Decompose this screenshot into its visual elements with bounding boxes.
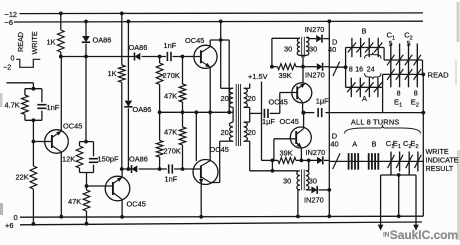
wire read input node [59,55,135,59]
wire T2 left loop [272,38,300,66]
wire READ node down right column [422,74,424,216]
svg-text:30: 30 [284,45,292,54]
svg-text:47K: 47K [164,92,177,101]
transistor OC45 Q3 (driver upper) [183,36,218,160]
svg-text:20: 20 [221,94,229,103]
wire write matrix bottom box [381,173,416,177]
resistor 1K R2 (on -12 drop) [108,12,126,170]
wire clamp column from -6 [327,19,331,218]
inductor T1 primary upper 20 turns [221,88,234,112]
svg-text:IN270: IN270 [304,196,324,205]
svg-text:24: 24 [367,67,375,74]
svg-text:READ: READ [428,70,450,79]
capacitor 1nF C1 (series, read row) [160,41,183,62]
inductor T2 secondary 30 turns [303,37,317,55]
wire T3 left loop [250,160,298,172]
svg-text:1μF: 1μF [262,117,275,126]
svg-text:40: 40 [330,140,338,149]
winding row B 8-16-24 turns [346,27,385,58]
diode IN270 D6 [303,63,329,80]
resistor 47K R5 [164,112,186,169]
resistor 4.7K R7 [5,87,42,121]
svg-text:39K: 39K [280,148,293,157]
wire 12K network bottom [80,173,94,188]
transformer T3 core [302,169,305,190]
label ALL 8 TURNS [345,117,421,133]
inductor T1 secondary upper 20 turns [244,84,256,123]
svg-text:40: 40 [328,45,336,54]
wire -6 drop to T1 primary top [219,20,233,89]
svg-text:22K: 22K [16,173,29,182]
svg-text:OC45: OC45 [269,98,288,107]
wire row to Q4 shield [195,112,197,161]
node OA86-12K junction [84,140,88,144]
core C2 winding column [404,30,417,87]
winding C2E2 write [403,139,421,175]
svg-text:20: 20 [248,94,256,103]
transistor OC45 Q5 [269,67,312,115]
diode OA86 D3 (on -6 drop) [124,20,151,170]
svg-text:5: 5 [389,41,393,48]
svg-text:C2: C2 [404,30,413,41]
transformer T1 core [236,84,240,146]
svg-text:1K: 1K [108,69,117,78]
svg-text:IN270: IN270 [306,148,326,157]
diode OA86 D1 (vertical from -6 rail) [82,20,112,57]
winding B write turns [369,139,379,169]
wire write drive row [329,160,423,162]
svg-text:8: 8 [349,67,353,74]
svg-text:1nF: 1nF [165,175,178,184]
svg-text:OC45: OC45 [63,122,82,131]
capacitor 1nF C2 (parallel with 4.7K) [37,89,59,121]
transistor OC45 Q6 [274,113,311,163]
inductor T3 secondary 30 turns [306,160,317,190]
net +6V bottom rail [5,221,422,230]
wire T1 secondary centre tap [250,112,263,114]
winding C1E1 write [386,139,403,175]
transistor OC45 Q1 (left input) [37,57,83,219]
core D write drive [330,132,340,170]
sense row lower to READ [383,69,426,80]
svg-text:30: 30 [309,177,317,186]
wire row A to output row [382,87,384,112]
capacitor 150pF C3 [89,142,119,173]
transistor OC45 Q4 (driver lower) [193,145,229,219]
diode OA86 D2 (series in read input row) [129,43,148,61]
svg-text:READ: READ [16,32,25,52]
svg-text:8: 8 [397,90,401,97]
capacitor 1uF C5 (to Q5 base) [262,93,280,126]
resistor 39K R12 (write driver) [271,148,303,163]
svg-text:16: 16 [355,67,363,74]
diode IN270 D5 [305,25,330,42]
svg-text:39K: 39K [279,71,292,80]
inductor T2 primary 30 turns [284,38,303,66]
inductor T1 secondary lower 20 turns [244,122,256,171]
core D read drive 40 turns [328,38,340,77]
svg-text:1nF: 1nF [47,103,60,112]
svg-text:+1.5V: +1.5V [248,72,268,81]
label E1 E2 windings [394,90,419,108]
svg-text:OA86: OA86 [93,35,112,44]
svg-text:1K: 1K [47,38,56,47]
wire sense row right bend [422,60,424,74]
wire matrix left bracket [345,48,347,88]
resistor 39K R11 (read driver) [270,64,305,80]
svg-text:B: B [362,27,367,36]
svg-text:ALL 8 TURNS: ALL 8 TURNS [351,117,400,126]
svg-text:+6: +6 [5,221,13,230]
svg-text:E2: E2 [411,98,419,109]
resistor 47K R4 [164,55,186,113]
net -12V top rail [5,10,424,19]
label +1.5V supply [248,72,268,81]
waveform pulse 0/-2 [3,53,40,71]
inductor T3 primary 30 turns [283,171,300,219]
resistor 22K R8 (base to +6) [16,142,37,226]
wire write input stub [7,83,34,89]
net 0V bottom rail [14,213,424,222]
diode IN270 D8 [304,186,329,205]
svg-text:OC45: OC45 [185,36,204,45]
svg-text:47K: 47K [164,128,177,137]
svg-text:OC45: OC45 [127,200,146,209]
svg-text:8: 8 [414,90,418,97]
capacitor 1uF C6 (output coupling) [303,97,425,118]
wire row B bend [383,48,385,61]
svg-text:−2: −2 [3,63,11,72]
svg-text:SaukIC.com: SaukIC.com [390,228,458,242]
wire write sense mid leg [397,175,401,218]
resistor 270K R3 [156,55,180,113]
svg-text:5: 5 [407,41,411,48]
wire write sense right leg [413,175,419,231]
transistor OC45 Q2 (lower left) [87,169,146,219]
svg-text:0: 0 [14,213,18,222]
resistor 1K R1 (left, -12 to read node) [47,12,65,57]
svg-text:30: 30 [283,177,291,186]
svg-text:A: A [352,139,357,148]
winding A write turns [349,139,359,169]
svg-text:−6: −6 [5,18,13,27]
svg-text:OA86: OA86 [129,154,148,163]
resistor 12K R9 [62,142,94,173]
svg-text:1nF: 1nF [164,41,177,50]
svg-text:20: 20 [248,128,256,137]
core C1 winding column [387,30,400,87]
inductor T1 primary lower 20 turns [220,112,233,180]
net -6V rail [5,18,424,27]
svg-text:1μF: 1μF [316,97,329,106]
svg-text:0: 0 [11,53,15,62]
svg-text:150pF: 150pF [98,155,119,164]
diode IN270 D7 [302,148,329,164]
label WRITE INDICATE RESULT [426,147,459,173]
svg-text:270K: 270K [164,147,181,156]
svg-text:IN: IN [383,232,390,239]
wire input network bottom [25,118,42,143]
svg-text:WRITE: WRITE [30,31,39,54]
svg-text:30: 30 [309,45,317,54]
svg-text:47K: 47K [68,197,81,206]
label 8 16 24 turn counts [349,53,381,80]
label READ input [16,32,25,52]
watermark SaukIC.com [383,228,458,242]
svg-text:B: B [372,139,377,148]
svg-text:IN270: IN270 [305,71,325,80]
svg-text:E1: E1 [394,98,402,109]
transformer T2 core [302,37,305,58]
svg-text:OA86: OA86 [133,105,152,114]
svg-text:OC45: OC45 [210,145,229,154]
wire read drive row [329,65,347,69]
capacitor 1nF C4 (series to Q4 base) [158,164,193,183]
wire read row to 270K node [142,56,160,58]
wire write sense left leg [378,175,384,231]
wire OA86 anode to 12K network [85,57,87,142]
sense row upper [384,55,422,66]
svg-text:IN270: IN270 [305,25,325,34]
svg-text:OC45: OC45 [280,117,299,126]
wire emitter node row [120,167,132,171]
winding row A 8-16-24 turns [346,78,383,103]
resistor 270K R6 [156,112,181,169]
svg-text:E2: E2 [410,139,418,150]
svg-text:4.7K: 4.7K [5,101,20,110]
diode OA86 D4 (horizontal, points left) [129,154,160,173]
label WRITE input [30,31,39,54]
svg-text:270K: 270K [163,71,180,80]
svg-text:12K: 12K [62,155,75,164]
wire mid row (divider junction to transformer) [158,110,233,114]
resistor 47K R10 (base to +6) [68,186,90,226]
svg-text:A: A [362,94,367,103]
svg-text:20: 20 [221,128,229,137]
wire sense row left bend [382,74,384,87]
wire +1.5V column [262,82,273,161]
svg-text:C1: C1 [387,30,396,41]
svg-text:OA86: OA86 [129,43,148,52]
svg-text:RESULT: RESULT [426,164,454,173]
label READ output [428,70,450,79]
wire driver loop [210,40,229,112]
